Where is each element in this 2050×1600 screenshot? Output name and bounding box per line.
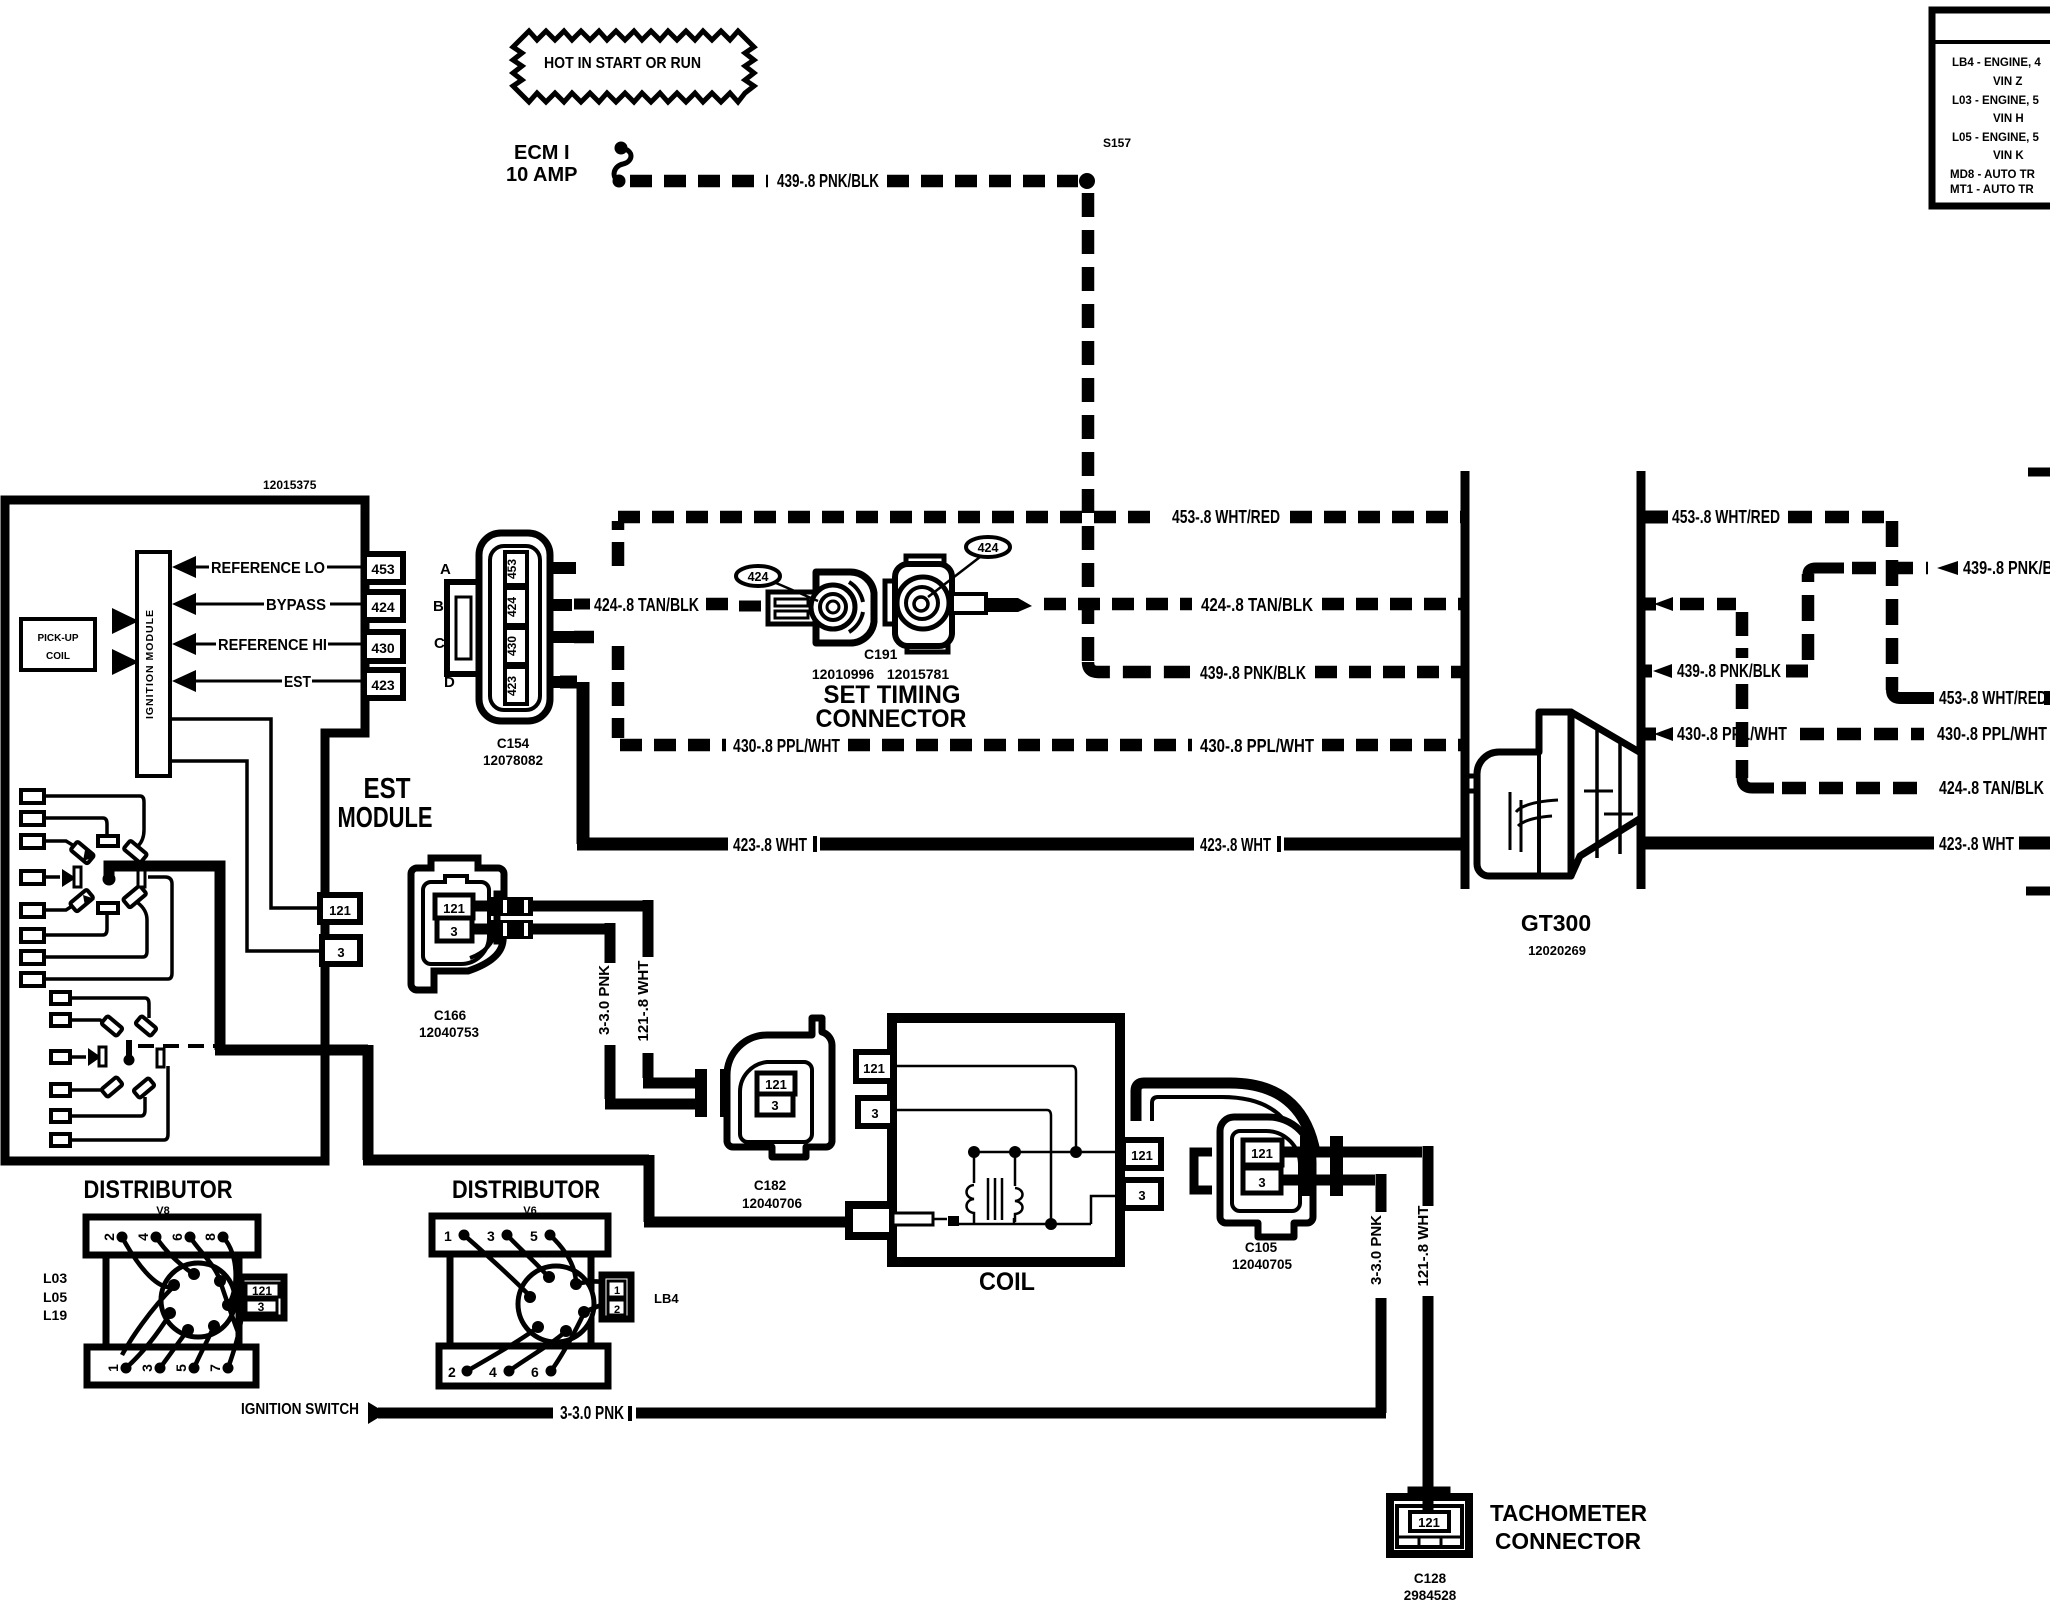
arrow pick-up coil to ignition module (lower) (112, 649, 139, 675)
distributor V8 title (84, 1176, 233, 1217)
wire 423-.8 WHT thick (pin D to bulkhead) (560, 682, 1461, 855)
coil internal wires (893, 1066, 1123, 1224)
svg-text:8: 8 (202, 1233, 218, 1241)
svg-text:ECM I: ECM I (514, 142, 570, 164)
svg-text:423: 423 (505, 676, 519, 696)
svg-text:LB4: LB4 (654, 1291, 679, 1306)
connector C182 body (727, 1018, 832, 1157)
arrow EST (172, 670, 362, 692)
svg-text:3: 3 (258, 1300, 265, 1314)
svg-text:C191: C191 (864, 646, 898, 662)
svg-text:1: 1 (105, 1364, 121, 1372)
C154 labels (483, 736, 543, 768)
C105 crimp bars (1300, 1136, 1343, 1196)
svg-text:L19: L19 (43, 1307, 67, 1323)
svg-text:S157: S157 (1103, 136, 1131, 150)
coil core (988, 1178, 1002, 1220)
wire 424-.8 TAN/BLK (pin B to bulkhead) (574, 595, 1461, 615)
coil box (892, 1018, 1120, 1262)
svg-text:3: 3 (771, 1098, 778, 1113)
splice S157 (1079, 136, 1131, 189)
thick wire module internal to exit (215, 1045, 853, 1222)
svg-text:CONNECTOR: CONNECTOR (1495, 1528, 1641, 1554)
svg-text:3: 3 (337, 945, 344, 960)
tachometer labels (1404, 1500, 1648, 1600)
svg-text:2984528: 2984528 (1404, 1588, 1457, 1600)
svg-text:LB4 - ENGINE, 4: LB4 - ENGINE, 4 (1952, 57, 2041, 69)
svg-text:121: 121 (443, 901, 465, 916)
fusible link label HOT IN START OR RUN (513, 31, 754, 102)
svg-text:424: 424 (978, 541, 999, 555)
svg-text:C166: C166 (434, 1008, 467, 1023)
svg-text:IGNITION SWITCH: IGNITION SWITCH (241, 1401, 359, 1418)
svg-text:12010996: 12010996 (812, 666, 875, 682)
C182 pin 3 (757, 1094, 793, 1115)
wire 439-.8 PNK/BLK (right area) (1645, 558, 2050, 681)
svg-text:L03: L03 (43, 1270, 67, 1286)
wire 453-.8 WHT/RED (pin A to bulkhead) (618, 507, 1461, 566)
coil junction dots (968, 1146, 1082, 1230)
C105 latch (1194, 1152, 1212, 1190)
svg-text:5: 5 (530, 1228, 538, 1244)
svg-text:10 AMP: 10 AMP (506, 164, 578, 186)
C166 labels (419, 1008, 480, 1040)
wire 3-3.0 PNK C105 to ignition switch line (1281, 1174, 1385, 1413)
svg-text:121-.8 WHT: 121-.8 WHT (635, 961, 652, 1042)
coil terminal 3 (right) (1123, 1180, 1161, 1208)
distributor V6 title (452, 1176, 600, 1217)
pickup pattern B wires (70, 998, 168, 1140)
svg-text:6: 6 (169, 1233, 185, 1241)
coil spark terminal (849, 1205, 959, 1236)
svg-text:4: 4 (489, 1364, 497, 1380)
svg-text:REFERENCE HI: REFERENCE HI (218, 637, 327, 654)
svg-text:430-.8 PPL/WHT: 430-.8 PPL/WHT (1200, 736, 1314, 756)
svg-text:423-.8 WHT: 423-.8 WHT (1939, 834, 2014, 854)
C154 pin 430 (505, 628, 527, 664)
svg-text:430-.8 PPL/WHT: 430-.8 PPL/WHT (1937, 724, 2047, 744)
svg-text:439-.8 PNK/BLK: 439-.8 PNK/BLK (1677, 661, 1781, 681)
distributor V6 body (432, 1216, 608, 1386)
svg-text:423-.8 WHT: 423-.8 WHT (1200, 835, 1271, 855)
svg-text:VIN Z: VIN Z (1993, 76, 2022, 88)
wire 439-.8 PNK/BLK from fuse to S157 (630, 171, 1078, 191)
C105 pin 3 (1243, 1168, 1281, 1193)
svg-text:121-.8 WHT: 121-.8 WHT (1415, 1206, 1432, 1287)
svg-text:2: 2 (101, 1233, 117, 1241)
svg-text:12015781: 12015781 (887, 666, 950, 682)
svg-text:121: 121 (863, 1061, 885, 1076)
wire 3 C166 to C182 (472, 920, 700, 1104)
C105 pin 121 (1243, 1140, 1282, 1165)
coil secondary winding (1015, 1188, 1023, 1222)
coil terminal 3 (left) (858, 1098, 893, 1126)
svg-text:EST: EST (364, 773, 411, 805)
svg-text:1: 1 (444, 1228, 452, 1244)
coil primary winding (967, 1185, 975, 1222)
svg-text:B: B (433, 598, 444, 615)
svg-text:C182: C182 (754, 1178, 786, 1193)
distributor V8 bottom pins 1 3 5 7 (105, 1363, 234, 1374)
pickup pattern B points (88, 1016, 164, 1099)
distributor V6 bottom pins 2 4 6 (448, 1364, 557, 1380)
svg-text:3: 3 (139, 1364, 155, 1372)
ignition module box (137, 552, 170, 776)
svg-text:439-.8 PNK/B: 439-.8 PNK/B (1963, 558, 2050, 578)
coil terminal 121 (left) (856, 1052, 893, 1081)
svg-text:VIN H: VIN H (1993, 113, 2024, 125)
pickup pattern A points (62, 836, 147, 913)
svg-text:L05: L05 (43, 1289, 67, 1305)
svg-text:C154: C154 (497, 736, 530, 751)
svg-text:439-.8 PNK/BLK: 439-.8 PNK/BLK (777, 171, 879, 191)
tag 424 (left connector) (736, 566, 818, 601)
svg-text:424-.8 TAN/BLK: 424-.8 TAN/BLK (594, 595, 699, 615)
svg-text:430: 430 (371, 640, 395, 656)
wire bundle coil to C105 (1136, 1083, 1315, 1152)
distributor V8 terminal block 121 3 (241, 1277, 284, 1318)
svg-text:3-3.0 PNK: 3-3.0 PNK (1368, 1215, 1385, 1285)
connector C154 latch (447, 582, 481, 674)
svg-text:VIN K: VIN K (1993, 150, 2024, 162)
svg-text:12040753: 12040753 (419, 1025, 480, 1040)
connector C105 body (1220, 1117, 1313, 1237)
wire ignition module to terminal 3 (170, 761, 322, 951)
fuse ECM I 10 AMP (506, 142, 631, 188)
svg-text:121: 121 (252, 1284, 272, 1298)
distributor V6 top pins 1 3 5 (444, 1228, 556, 1244)
svg-text:EST: EST (284, 674, 311, 691)
svg-text:12040705: 12040705 (1232, 1257, 1293, 1272)
distributor V8 cap wires (122, 1237, 242, 1368)
wire 430-.8 PPL/WHT (right of bulkhead) (1645, 724, 2047, 744)
svg-text:DISTRIBUTOR: DISTRIBUTOR (84, 1176, 233, 1204)
GT300 labels (1521, 910, 1591, 958)
svg-text:3: 3 (871, 1106, 878, 1121)
svg-text:IGNITION MODULE: IGNITION MODULE (144, 609, 156, 719)
arrow REFERENCE LO (172, 556, 362, 578)
grommet GT300 (1467, 712, 1641, 876)
svg-text:424-.8 TAN/BLK: 424-.8 TAN/BLK (1939, 778, 2044, 798)
distributor V6 cap circle (518, 1266, 594, 1342)
C166 pin 121 (435, 895, 473, 918)
cut wire stub top right edge (2028, 468, 2050, 477)
terminal 423 (364, 670, 403, 698)
wire 453-.8 WHT/RED (right of bulkhead) (1645, 507, 2050, 708)
svg-text:430: 430 (505, 636, 519, 656)
svg-text:424: 424 (371, 599, 395, 615)
arrow BYPASS (172, 593, 362, 615)
svg-text:C128: C128 (1414, 1571, 1447, 1586)
svg-text:MD8 - AUTO TR: MD8 - AUTO TR (1950, 169, 2036, 181)
svg-text:REFERENCE LO: REFERENCE LO (211, 560, 325, 577)
svg-text:L05 - ENGINE, 5: L05 - ENGINE, 5 (1952, 132, 2040, 144)
svg-text:BYPASS: BYPASS (266, 597, 326, 614)
C154 cavity letters A B C D (433, 561, 455, 691)
svg-text:TACHOMETER: TACHOMETER (1490, 1500, 1647, 1526)
svg-text:12078082: 12078082 (483, 753, 543, 768)
distributor V8 engine codes L03 L05 L19 (43, 1270, 67, 1323)
C154 pin 423 (505, 667, 527, 704)
svg-text:12015375: 12015375 (263, 478, 317, 492)
svg-text:423-.8 WHT: 423-.8 WHT (733, 835, 807, 855)
svg-text:2: 2 (448, 1364, 456, 1380)
svg-text:GT300: GT300 (1521, 910, 1591, 936)
terminal 453 (364, 554, 403, 582)
svg-text:HOT IN START OR RUN: HOT IN START OR RUN (544, 55, 701, 72)
svg-text:A: A (440, 561, 451, 578)
pick-up coil box (21, 619, 95, 670)
svg-text:12020269: 12020269 (1528, 943, 1586, 958)
C105 labels (1232, 1240, 1293, 1272)
svg-text:12040706: 12040706 (742, 1196, 803, 1211)
C182 crimp bars (695, 1069, 732, 1117)
svg-text:L03 - ENGINE, 5: L03 - ENGINE, 5 (1952, 95, 2040, 107)
terminal 121 (module edge) (320, 895, 360, 922)
svg-text:453-.8 WHT/RED: 453-.8 WHT/RED (1939, 688, 2047, 708)
connector C166 body (411, 858, 504, 990)
distributor V8 body (86, 1217, 258, 1385)
C182 pin 121 (757, 1073, 795, 1094)
svg-text:430-.8 PPL/WHT: 430-.8 PPL/WHT (1677, 724, 1787, 744)
terminal 424 (364, 592, 403, 620)
svg-text:3: 3 (1138, 1188, 1145, 1203)
svg-text:2: 2 (614, 1304, 620, 1316)
connector C154 body (479, 533, 550, 721)
svg-text:453: 453 (505, 559, 519, 579)
svg-text:6: 6 (531, 1364, 539, 1380)
C154 pin 453 (505, 552, 527, 585)
svg-text:3: 3 (1258, 1175, 1265, 1190)
bulkhead right vertical (1637, 471, 1646, 889)
distributor V8 top pins 2 4 6 8 (101, 1232, 229, 1243)
pickup pattern A thick output wire (109, 866, 220, 1050)
svg-text:121: 121 (1251, 1146, 1273, 1161)
svg-text:5: 5 (173, 1364, 189, 1372)
tachometer connector C128 (1390, 1490, 1469, 1554)
svg-text:MODULE: MODULE (338, 802, 433, 834)
wire ignition module to terminal 121 (170, 719, 320, 908)
wire 424-.8 TAN/BLK (right of bulkhead) (1645, 597, 2044, 798)
svg-text:1: 1 (614, 1285, 620, 1297)
wire 439-.8 PNK/BLK (S157 to bulkhead) (1088, 662, 1461, 683)
wire 121-.8 WHT C105 to tachometer (1282, 1146, 1432, 1497)
tag 424 (right connector) (928, 537, 1010, 597)
svg-text:424: 424 (505, 597, 519, 617)
pickup pattern A wires (44, 796, 172, 979)
arrow REFERENCE HI (172, 633, 362, 655)
set timing connector labels (812, 646, 967, 733)
wire 439 vertical from S157 down (1082, 193, 1095, 662)
wire 430-.8 PPL/WHT (pin C to bulkhead) (574, 637, 1461, 756)
svg-text:121: 121 (1131, 1148, 1153, 1163)
terminal 430 (364, 632, 403, 661)
coil terminal 121 (right) (1123, 1140, 1161, 1168)
svg-text:MT1 - AUTO TR: MT1 - AUTO TR (1950, 184, 2034, 196)
EST module outline box (5, 500, 365, 1161)
svg-text:COIL: COIL (46, 651, 70, 662)
EST MODULE label (338, 773, 433, 834)
cut wire stub bottom right edge (2026, 887, 2050, 896)
C154 pin stubs (552, 568, 576, 682)
svg-text:423: 423 (371, 677, 395, 693)
svg-text:COIL: COIL (979, 1268, 1035, 1296)
wire 423-.8 WHT (right of bulkhead) (1645, 834, 2050, 854)
ignition switch feed wire (241, 1401, 1386, 1424)
svg-text:121: 121 (1418, 1515, 1440, 1530)
svg-text:453-.8 WHT/RED: 453-.8 WHT/RED (1672, 507, 1780, 527)
legend table (cut off at right edge) (1932, 10, 2050, 206)
svg-text:4: 4 (135, 1233, 151, 1241)
svg-text:3: 3 (450, 924, 457, 939)
svg-text:C: C (434, 635, 445, 652)
C166 pin 3 (437, 918, 472, 941)
svg-text:424-.8 TAN/BLK: 424-.8 TAN/BLK (1201, 595, 1313, 615)
bulkhead left vertical (1461, 471, 1470, 889)
svg-text:3-3.0 PNK: 3-3.0 PNK (596, 965, 613, 1035)
distributor V6 cap wires (464, 1235, 607, 1371)
svg-text:453: 453 (371, 561, 395, 577)
pickup pattern B terminals (51, 992, 70, 1146)
svg-text:453-.8 WHT/RED: 453-.8 WHT/RED (1172, 507, 1280, 527)
svg-text:439-.8 PNK/BLK: 439-.8 PNK/BLK (1200, 663, 1306, 683)
svg-text:121: 121 (329, 903, 351, 918)
svg-text:121: 121 (765, 1077, 787, 1092)
C154 pin 424 (505, 588, 527, 625)
svg-text:D: D (444, 674, 455, 691)
pickup pattern A terminals (21, 790, 44, 986)
distributor V6 terminal block 1 2 (602, 1275, 631, 1319)
svg-text:CONNECTOR: CONNECTOR (816, 705, 967, 733)
svg-text:7: 7 (207, 1364, 223, 1372)
svg-text:3: 3 (487, 1228, 495, 1244)
svg-text:DISTRIBUTOR: DISTRIBUTOR (452, 1176, 600, 1204)
set timing connector plug 12010996 (739, 572, 874, 643)
distributor V8 cap circle (161, 1263, 235, 1337)
set timing connector 12015781 (885, 556, 1032, 652)
terminal 3 (module edge) (322, 937, 360, 964)
pickup pattern B dash output (138, 1044, 216, 1048)
C182 labels (742, 1178, 803, 1211)
svg-text:424: 424 (748, 570, 769, 584)
arrow pick-up coil to ignition module (upper) (112, 608, 139, 634)
svg-text:C105: C105 (1245, 1240, 1278, 1255)
svg-text:3-3.0 PNK: 3-3.0 PNK (560, 1403, 624, 1423)
svg-text:PICK-UP: PICK-UP (37, 633, 78, 644)
svg-text:430-.8 PPL/WHT: 430-.8 PPL/WHT (733, 736, 840, 756)
wire 121 C166 to C182 (473, 897, 700, 1083)
